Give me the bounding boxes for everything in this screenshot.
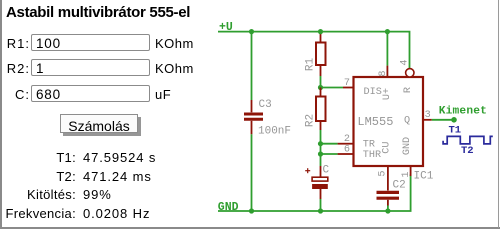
wire pin 8 from +U rail — [386, 32, 388, 66]
svg-text:2: 2 — [344, 134, 350, 145]
capacitor C bottom plate (solid) — [312, 184, 328, 189]
pin 2 lead — [338, 143, 354, 145]
resistor R1 — [316, 43, 326, 66]
svg-text:IC1: IC1 — [414, 171, 434, 183]
result T1 — [0, 150, 156, 165]
wire GND bottom rail — [218, 175, 411, 212]
svg-text:8: 8 — [378, 70, 389, 76]
svg-text:6: 6 — [344, 145, 350, 156]
resistor R2 lead top — [320, 88, 322, 97]
pin 3 lead — [423, 119, 432, 121]
result T2 — [0, 169, 152, 184]
node Kimenet dot — [451, 117, 457, 123]
wire pin 3 to output — [432, 119, 454, 121]
svg-text:C3: C3 — [259, 99, 272, 111]
svg-text:1: 1 — [401, 171, 412, 177]
frame left border — [0, 0, 2, 228]
wire C3 bottom lead — [251, 134, 253, 211]
resistor R1 lead bottom — [320, 65, 322, 76]
pin 6 lead — [338, 153, 354, 155]
svg-text:T2: T2 — [461, 145, 474, 157]
C unit — [155, 87, 171, 102]
capacitor C bottom lead — [320, 189, 322, 199]
svg-text:U+: U+ — [382, 88, 393, 100]
wire C2 to GND rail — [387, 206, 389, 212]
junction C2 on GND rail — [385, 208, 390, 213]
svg-text:Kimenet: Kimenet — [439, 105, 487, 117]
svg-text:R: R — [403, 87, 414, 93]
R2 unit — [155, 61, 194, 76]
wire C to GND rail — [320, 199, 322, 211]
junction pin2 — [318, 141, 323, 146]
svg-text:3: 3 — [425, 110, 431, 121]
svg-text:+U: +U — [219, 21, 233, 34]
svg-text:GND: GND — [218, 201, 239, 214]
title — [6, 4, 190, 21]
junction C on GND rail — [318, 208, 323, 213]
svg-text:GND: GND — [402, 137, 413, 155]
svg-text:100nF: 100nF — [258, 126, 291, 138]
junction C3 on +U rail — [249, 29, 254, 34]
wire R2 to junctions — [320, 130, 322, 166]
pin 5 lead — [387, 166, 389, 191]
capacitor C top plate (hollow) — [312, 177, 328, 181]
C input — [31, 85, 150, 102]
frame bottom border — [0, 227, 500, 228]
R2 input — [31, 59, 150, 76]
svg-text:CU: CU — [382, 141, 393, 153]
pin 8 lead — [386, 66, 388, 77]
wire +U top rail — [218, 32, 410, 69]
svg-text:R2: R2 — [305, 114, 317, 127]
op-amp IC1 LM555 body — [354, 77, 424, 166]
C input label — [0, 87, 30, 102]
junction pin6 — [318, 151, 323, 156]
R2 input label — [0, 61, 30, 76]
R1 input label — [0, 36, 30, 51]
wire to pin 2 — [321, 143, 338, 145]
R1 unit — [155, 36, 194, 51]
wire C3 top lead — [251, 32, 253, 100]
svg-text:7: 7 — [344, 78, 350, 89]
wire to pin 6 — [321, 153, 338, 155]
svg-text:LM555: LM555 — [357, 115, 393, 129]
svg-text:TR: TR — [363, 140, 375, 151]
resistor R1 lead top — [320, 32, 322, 42]
frame right border — [498, 0, 499, 228]
svg-text:THR: THR — [363, 150, 381, 161]
svg-text:C: C — [323, 165, 330, 177]
result Kitoltes — [0, 187, 112, 202]
svg-text:5: 5 — [378, 170, 389, 176]
junction R1/R2/pin7 — [318, 85, 323, 90]
Szamolas button — [60, 114, 138, 133]
pin 1 lead — [410, 166, 412, 176]
pin 4 inversion bubble — [406, 69, 414, 77]
junction R1 on +U rail — [318, 29, 323, 34]
junction C3 on GND rail — [249, 208, 254, 213]
R1 input — [31, 34, 150, 51]
resistor R2 lead bottom — [320, 121, 322, 130]
result Frekvencia — [0, 206, 150, 221]
capacitor C3 — [244, 100, 263, 134]
svg-text:4: 4 — [400, 59, 411, 65]
output waveform — [443, 136, 493, 144]
svg-text:T1: T1 — [449, 125, 462, 137]
wire to pin 7 — [321, 87, 344, 89]
junction pin 8 on +U rail — [385, 29, 390, 34]
svg-text:C2: C2 — [393, 180, 406, 192]
pin 7 lead — [343, 87, 354, 89]
svg-text:Q: Q — [404, 116, 410, 127]
svg-text:DIS: DIS — [364, 87, 382, 98]
capacitor C plus sign — [305, 168, 310, 173]
capacitor C2 — [377, 192, 400, 205]
svg-text:R1: R1 — [305, 58, 317, 72]
wire R1 to junction — [320, 76, 322, 88]
capacitor C polarized top lead — [320, 166, 322, 177]
resistor R2 — [316, 97, 326, 122]
